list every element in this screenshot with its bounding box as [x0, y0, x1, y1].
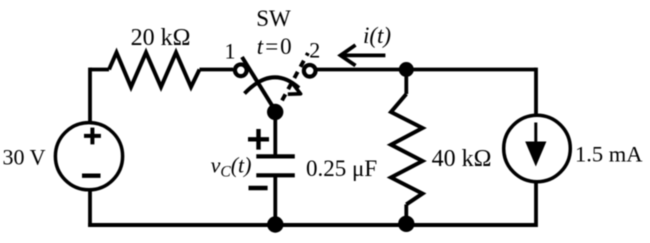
svg-text:i(t): i(t): [363, 23, 391, 48]
wire: junction down to 40k resistor: [404, 70, 408, 95]
switch pivot junction dot: [267, 104, 283, 120]
wire: left vertical top (corner to source): [88, 68, 92, 123]
junction node dot (top of 40k): [399, 62, 414, 77]
wire: right vertical bottom (current source to bottom wire): [534, 182, 538, 228]
wire: 40k resistor to bottom junction: [404, 204, 408, 225]
wire: from resistor to node 1: [200, 68, 234, 72]
svg-text:0.25 μF: 0.25 μF: [306, 156, 377, 181]
svg-text:40 kΩ: 40 kΩ: [432, 146, 492, 172]
voltage source minus sign: [82, 173, 101, 177]
svg-text:t=0: t=0: [257, 34, 292, 59]
resistor R1 20 kOhm zigzag: [109, 53, 200, 88]
resistor R2 40 kOhm vertical zigzag: [391, 94, 423, 204]
capacitor polarity plus sign: [248, 129, 269, 150]
svg-text:30 V: 30 V: [3, 145, 46, 170]
capacitor C1 bottom plate: [256, 173, 295, 177]
capacitor polarity minus sign: [249, 186, 268, 190]
wire: top from node 2 to right corner: [316, 68, 536, 72]
voltage source VS1 circle: [55, 123, 122, 190]
switch motion arc with arrowhead: [245, 77, 300, 93]
node 2 terminal circle: [304, 65, 316, 77]
current source arrow (down): [534, 123, 537, 148]
switch SW dashed lever (thrown position to node 2): [276, 53, 308, 112]
svg-text:1: 1: [225, 39, 236, 64]
voltage source plus sign: [84, 128, 101, 145]
switch SW solid lever (position 1): [242, 57, 276, 112]
wire: bottom horizontal: [88, 223, 536, 227]
current arrow i(t) pointing left: [343, 54, 385, 58]
svg-text:vC(t): vC(t): [211, 153, 252, 181]
svg-text:2: 2: [309, 38, 320, 63]
arc arrowhead: [288, 82, 301, 94]
wire: left vertical bottom (source to bottom wire): [88, 190, 92, 227]
junction dot (capacitor bottom): [267, 216, 283, 232]
svg-text:SW: SW: [256, 6, 291, 31]
wire: top-left horizontal from left corner to 20k resistor: [90, 68, 109, 72]
wire: capacitor top lead from pivot dot: [273, 112, 277, 155]
current source IS1 circle: [504, 115, 571, 182]
node 1 terminal circle: [235, 64, 247, 76]
wire: right vertical top (corner to current source): [534, 68, 538, 116]
wire: capacitor bottom lead: [273, 175, 277, 225]
svg-text:1.5 mA: 1.5 mA: [575, 142, 643, 167]
svg-text:20 kΩ: 20 kΩ: [131, 25, 191, 51]
capacitor C1 top plate: [256, 154, 295, 158]
junction dot (40k bottom): [398, 216, 414, 232]
